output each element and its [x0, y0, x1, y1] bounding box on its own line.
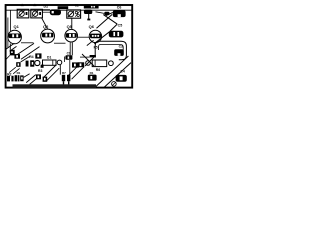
svg-text:Q1: Q1	[14, 24, 20, 29]
svg-text:R4: R4	[29, 55, 33, 59]
svg-text:R3: R3	[38, 69, 42, 73]
svg-text:D1: D1	[47, 56, 51, 60]
svg-text:Q2: Q2	[43, 24, 49, 29]
svg-text:Q6: Q6	[89, 24, 95, 29]
svg-text:C9: C9	[67, 51, 71, 55]
svg-text:Q5: Q5	[67, 24, 73, 29]
svg-text:D2: D2	[44, 5, 49, 9]
svg-text:R1: R1	[90, 71, 94, 75]
svg-text:C6: C6	[117, 6, 122, 10]
svg-text:R5: R5	[94, 45, 98, 49]
svg-text:R6: R6	[96, 68, 100, 72]
svg-text:C1: C1	[75, 3, 79, 7]
svg-text:R1: R1	[17, 71, 21, 75]
svg-text:C5: C5	[118, 24, 123, 28]
svg-text:R2: R2	[7, 72, 11, 76]
svg-text:R7: R7	[62, 71, 66, 75]
svg-text:C4: C4	[120, 69, 124, 73]
